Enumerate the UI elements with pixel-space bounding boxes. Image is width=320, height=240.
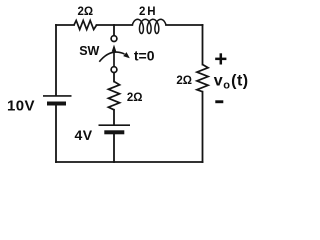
battery 10V plus plate (43, 95, 72, 97)
svg-text:t=0: t=0 (134, 48, 155, 64)
wire top right segment (166, 24, 203, 26)
switch closing arc arrow t=0 (99, 52, 130, 62)
wire top-left segment (56, 24, 74, 26)
svg-text:2Ω: 2Ω (176, 75, 192, 87)
svg-text:4V: 4V (74, 127, 92, 143)
polarity minus sign (215, 100, 223, 103)
wire right vertical upper (202, 25, 204, 65)
wire switch to middle resistor (113, 73, 115, 82)
svg-text:vo(t): vo(t) (214, 72, 249, 91)
switch SW bottom contact (111, 67, 117, 73)
wire middle resistor to 4V battery (113, 110, 115, 125)
inductor 2H (132, 19, 166, 33)
svg-text:SW: SW (79, 44, 99, 58)
wire top middle (resistor to inductor) (97, 24, 133, 26)
switch SW top contact (111, 36, 117, 42)
resistor 2ohm middle (below switch) (108, 82, 119, 110)
wire right vertical lower (202, 92, 204, 162)
resistor 2ohm right (output) (197, 65, 208, 92)
svg-text:10V: 10V (7, 97, 35, 114)
svg-text:2Ω: 2Ω (127, 92, 143, 104)
battery 4V minus plate (104, 130, 124, 134)
wire switch branch drop from top node (113, 25, 115, 35)
wire left vertical upper (55, 25, 57, 95)
svg-text:2H: 2H (139, 6, 157, 18)
svg-text:2Ω: 2Ω (77, 6, 93, 18)
polarity plus sign (215, 53, 226, 64)
wire left vertical lower (55, 106, 57, 163)
battery 4V plus plate (99, 124, 131, 126)
wire 4V battery to bottom (113, 134, 115, 162)
battery 10V minus plate (47, 102, 66, 106)
resistor 2ohm top (74, 21, 97, 30)
wire bottom (56, 161, 203, 163)
switch actuation arrow (vertical, pointing up) (112, 45, 117, 67)
